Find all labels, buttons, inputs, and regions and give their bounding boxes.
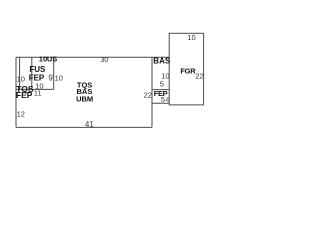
wire partition horizontal under porch boxes — [16, 88, 54, 90]
svg-text:FGR: FGR — [180, 66, 196, 75]
svg-text:10: 10 — [187, 33, 195, 42]
svg-text:9: 9 — [48, 74, 53, 83]
svg-text:10: 10 — [39, 54, 47, 63]
svg-text:22: 22 — [144, 91, 152, 100]
wire FEP annex bottom line — [152, 102, 169, 104]
svg-text:10: 10 — [17, 74, 25, 83]
svg-text:FEP: FEP — [16, 90, 33, 100]
svg-text:22: 22 — [195, 72, 203, 81]
svg-text:12: 12 — [17, 110, 25, 119]
svg-text:US: US — [47, 54, 57, 63]
svg-text:4: 4 — [165, 97, 169, 104]
wire narrow sliver vertical — [19, 57, 21, 89]
garage FGR outline — [169, 33, 203, 105]
svg-text:10: 10 — [55, 73, 63, 82]
main house outline — [16, 57, 169, 127]
svg-text:11: 11 — [34, 89, 42, 98]
wire FEP annex top line — [152, 89, 169, 91]
svg-text:30: 30 — [101, 57, 109, 64]
svg-text:41: 41 — [85, 120, 94, 129]
svg-text:5: 5 — [160, 79, 164, 88]
svg-text:BAS: BAS — [153, 56, 171, 65]
wire partition vertical right of FUS box — [53, 57, 55, 89]
svg-text:UBM: UBM — [76, 94, 93, 103]
wire partition vertical left of FUS box — [31, 57, 33, 89]
svg-text:FUS: FUS — [29, 65, 46, 74]
